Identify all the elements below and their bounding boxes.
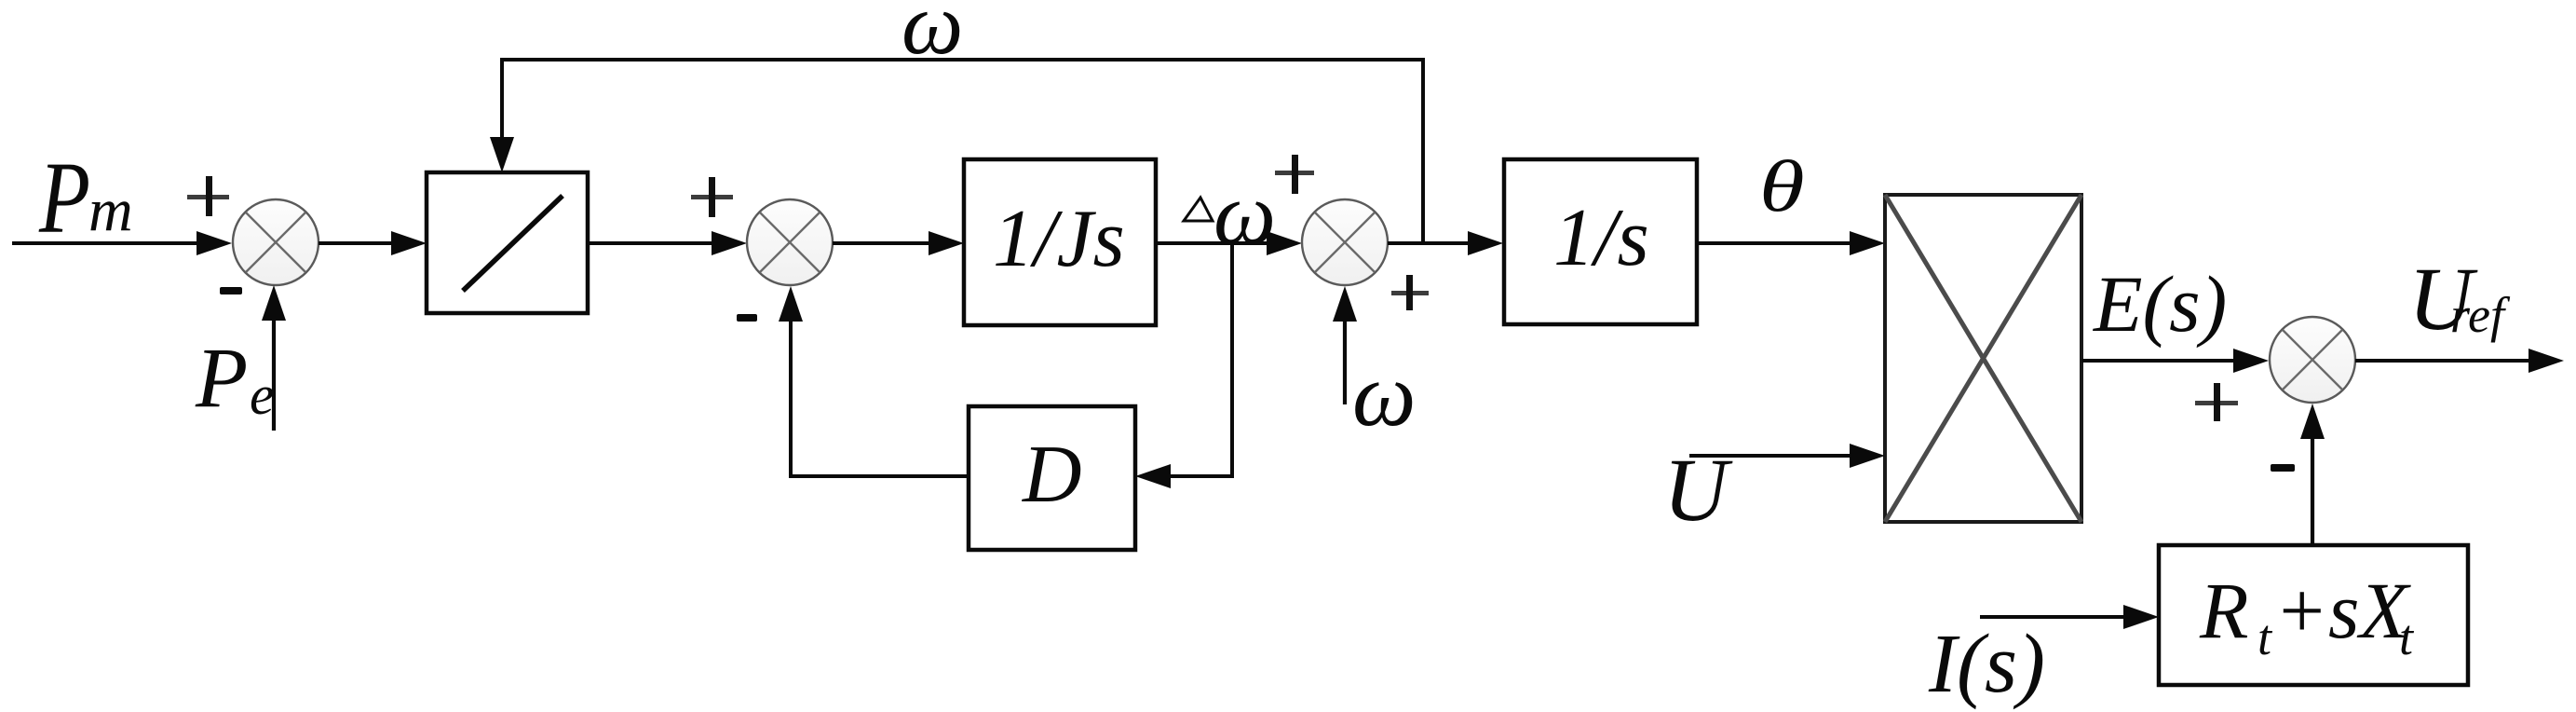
svg-text:1/Js: 1/Js	[993, 194, 1125, 284]
svg-text:R: R	[2199, 566, 2249, 655]
wire omega feedback (top)	[490, 60, 1423, 243]
summing junction S2	[747, 199, 833, 285]
svg-text:D: D	[1022, 430, 1082, 520]
wire S1 to droop box	[319, 231, 427, 255]
svg-text:E(s): E(s)	[2092, 259, 2227, 349]
wire Pe input	[262, 285, 286, 431]
wire omega input to S3	[1333, 286, 1357, 404]
svg-text:m: m	[88, 176, 133, 244]
minus sign at S1	[220, 287, 242, 294]
svg-text:+sX: +sX	[2274, 566, 2412, 655]
wire crossed box to S4	[2081, 349, 2269, 373]
plus sign at summing junction S1	[187, 176, 229, 216]
wire S2 to 1/Js	[833, 231, 964, 255]
svg-text:I(s): I(s)	[1928, 618, 2045, 710]
node Pe label	[195, 330, 275, 426]
svg-text:ω: ω	[1352, 345, 1417, 445]
svg-text:U: U	[1663, 440, 1733, 540]
wire I(s) input	[1980, 605, 2159, 629]
block D	[969, 406, 1135, 550]
svg-text:t: t	[2399, 609, 2415, 665]
minus sign at S2	[737, 314, 757, 322]
node Pm label	[38, 141, 133, 254]
svg-text:ω: ω	[902, 0, 963, 73]
summing junction S1	[233, 199, 319, 285]
svg-text:ref: ref	[2450, 287, 2511, 343]
svg-text:e: e	[250, 364, 275, 426]
droop block (slope box)	[427, 172, 588, 313]
block 1/s	[1504, 159, 1697, 324]
svg-text:P: P	[195, 330, 248, 425]
wire Pm input	[12, 231, 232, 255]
wire S3 to 1/s	[1388, 231, 1503, 255]
wire 1/s to crossed box, theta	[1697, 231, 1885, 255]
svg-text:1/s: 1/s	[1553, 193, 1649, 283]
crossed box (synchronous machine model)	[1885, 195, 2081, 522]
plus sign at S2	[691, 177, 733, 217]
block Rt+sXt	[2159, 545, 2468, 685]
node theta label	[1759, 147, 1805, 227]
node delta-omega label	[1184, 164, 1276, 263]
summing junction S4	[2270, 317, 2355, 403]
svg-text:θ: θ	[1759, 147, 1805, 227]
minus sign at S4	[2271, 464, 2295, 472]
wire U input	[1689, 444, 1885, 468]
svg-text:t: t	[2257, 609, 2273, 665]
plus sign at S3 (top)	[1275, 155, 1314, 194]
plus sign at S4	[2195, 383, 2238, 421]
block 1/Js	[964, 159, 1156, 325]
svg-text:ω: ω	[1213, 164, 1276, 263]
wire 1/Js to S3	[1156, 231, 1302, 255]
plus sign at S3 (bottom right)	[1391, 275, 1429, 310]
wire D feedback (right side, down from main line)	[1135, 243, 1232, 488]
svg-text:P: P	[38, 141, 90, 254]
summing junction S3	[1302, 199, 1388, 285]
wire droop box to S2	[588, 231, 747, 255]
wire S4 output Uref	[2355, 349, 2564, 373]
wire D feedback (left side, into S2 bottom)	[779, 286, 969, 476]
node Uref label	[2408, 249, 2511, 349]
wire Rt+sXt block to S4	[2300, 404, 2325, 545]
